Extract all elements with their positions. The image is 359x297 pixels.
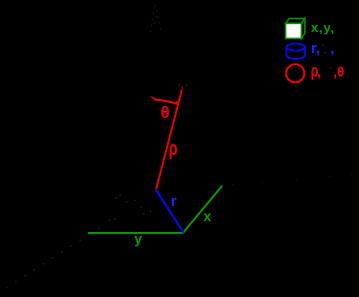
rho tip fade <box>181 86 184 89</box>
legend cube (Cartesian) <box>286 19 305 39</box>
x-axis (toward viewer, faint dotted dark green) <box>6 228 100 289</box>
svg-text:,θ: ,θ <box>333 64 344 79</box>
x axis (green, up-right) <box>183 186 222 233</box>
svg-text:ρ: ρ <box>169 137 178 160</box>
phi-arc remnants (faint scattered dots in xy-plane) <box>109 194 152 221</box>
r segment (blue) <box>156 190 183 233</box>
svg-text:r: r <box>171 193 177 210</box>
svg-text:,: , <box>330 40 334 57</box>
rho segment (red) <box>156 90 182 190</box>
faint dotted continuation right of x axis end <box>232 174 352 187</box>
theta arc (red) with end barbs <box>151 97 157 100</box>
svg-text:θ: θ <box>161 103 170 122</box>
svg-text:r,: r, <box>311 40 320 57</box>
point P marker remnants (two faint dots) <box>178 84 187 86</box>
svg-text:y: y <box>134 231 142 247</box>
legend cylinder (cylindrical) <box>287 43 305 58</box>
y axis (green, horizontal) <box>88 232 183 234</box>
z-axis shaft remnant dots <box>154 16 158 24</box>
z-axis arrowhead (faint dark green V at top) <box>151 4 162 33</box>
svg-text:x: x <box>203 208 211 224</box>
svg-text:x,y,: x,y, <box>311 20 335 35</box>
legend faint phi remnant dots <box>323 44 332 69</box>
legend sphere (spherical) <box>286 64 304 82</box>
svg-text:,: , <box>317 65 321 80</box>
